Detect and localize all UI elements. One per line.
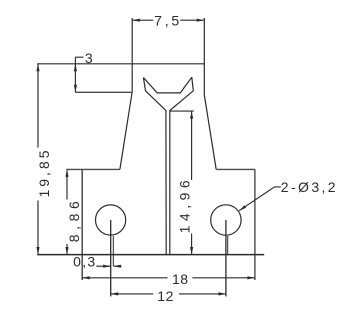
- node arrowhead 7,5 right: [197, 19, 205, 22]
- wire Y-slot left outer contour: ear tip, outer corner, funnel diagonal, stem left wall: [143, 78, 166, 255]
- wire 12 dimension line left segment: [111, 293, 154, 295]
- wire left shoulder edge with extension line left to 8,86 dimension: [67, 168, 120, 170]
- wire right edge of top block with 7,5 extension line above: [203, 18, 205, 96]
- svg-text:19,85: 19,85: [36, 147, 52, 197]
- wire 7,5 dimension line left segment: [132, 19, 153, 21]
- node arrowhead 8,86 down: [65, 247, 68, 255]
- wire 14,96 dimension line upper segment: [191, 111, 193, 180]
- wire left edge of top block with 7,5 extension line above: [131, 18, 133, 92]
- wire left step edge of block extended left for 3 dimension: [75, 91, 132, 93]
- wire 18 dimension line right segment: [192, 277, 255, 279]
- wire part top edge with extension line left to 19,85 dimension: [37, 63, 204, 65]
- svg-text:12: 12: [157, 288, 174, 304]
- svg-text:3: 3: [85, 50, 93, 66]
- node arrowhead 19,85 up: [36, 64, 39, 72]
- node arrowhead leader at hole edge: [239, 205, 246, 211]
- node arrowhead 19,85 down: [36, 247, 39, 255]
- wire left flange edge with extension line down to 18 dimension: [81, 169, 83, 280]
- wire left hole slit right edge extended below base for 0,3 dimension: [112, 236, 114, 266]
- node arrowhead 14,96 up: [190, 111, 193, 119]
- wire left hole center line down to 12 dimension: [110, 220, 112, 296]
- wire 12 dimension line right segment: [179, 293, 226, 295]
- wire Y-slot inner valley between ears: [143, 77, 191, 93]
- node arrowhead 7,5 left: [132, 19, 140, 22]
- wire right slanted side of body: [204, 96, 216, 170]
- node arrowhead 18 right: [247, 276, 255, 279]
- wire 19,85 dimension line upper segment: [37, 64, 39, 148]
- svg-text:14,96: 14,96: [176, 176, 192, 234]
- wire 0,3 dimension line right segment: [113, 265, 121, 267]
- svg-text:8,86: 8,86: [66, 197, 82, 243]
- node arrowhead 8,86 up: [65, 169, 68, 177]
- wire right shoulder edge: [216, 168, 255, 170]
- wire 3 dimension text leader tick: [75, 56, 83, 58]
- node arrowhead 18 left: [82, 276, 90, 279]
- node arrowhead 12 right: [219, 292, 227, 295]
- svg-text:0,3: 0,3: [73, 254, 96, 270]
- wire Y-slot right outer contour: ear tip, outer corner, funnel diagonal, stem right wall: [170, 77, 194, 254]
- wire 0,3 dimension line left segment: [96, 265, 110, 267]
- svg-text:7,5: 7,5: [154, 12, 182, 28]
- node arrowhead 12 left: [111, 292, 119, 295]
- wire 8,86 dimension line upper segment: [66, 169, 68, 199]
- svg-text:2-Ø3,2: 2-Ø3,2: [281, 179, 338, 195]
- wire 18 dimension line left segment: [82, 277, 167, 279]
- wire left slanted side of body: [120, 92, 132, 169]
- node arrowhead 3 up: [74, 64, 77, 72]
- node right mounting hole: [211, 205, 241, 235]
- wire 14,96 dimension line lower segment: [191, 234, 193, 255]
- wire right hole center line down to 12 dimension: [225, 220, 227, 296]
- wire 8,86 dimension line lower segment: [66, 244, 68, 255]
- node left mounting hole: [96, 205, 126, 235]
- wire leader line to holes callout 2-diameter 3,2: [239, 187, 281, 211]
- wire 19,85 dimension line lower segment: [37, 201, 39, 255]
- wire 3 dimension line vertical: [74, 57, 76, 92]
- wire right flange edge with extension line down to 18 dimension: [254, 169, 256, 280]
- node arrowhead 0,3 pointing left at slit: [113, 265, 121, 268]
- node arrowhead 0,3 pointing right at slit: [103, 265, 111, 268]
- node arrowhead 14,96 down: [190, 247, 193, 255]
- wire 7,5 dimension line right segment: [180, 19, 204, 21]
- wire part base line extended both sides: [37, 254, 264, 256]
- wire 14,96 extension line from slot top: [170, 110, 194, 112]
- wire right hole slit right edge: [227, 236, 229, 255]
- node arrowhead 3 down: [74, 85, 77, 93]
- svg-text:18: 18: [172, 271, 189, 287]
